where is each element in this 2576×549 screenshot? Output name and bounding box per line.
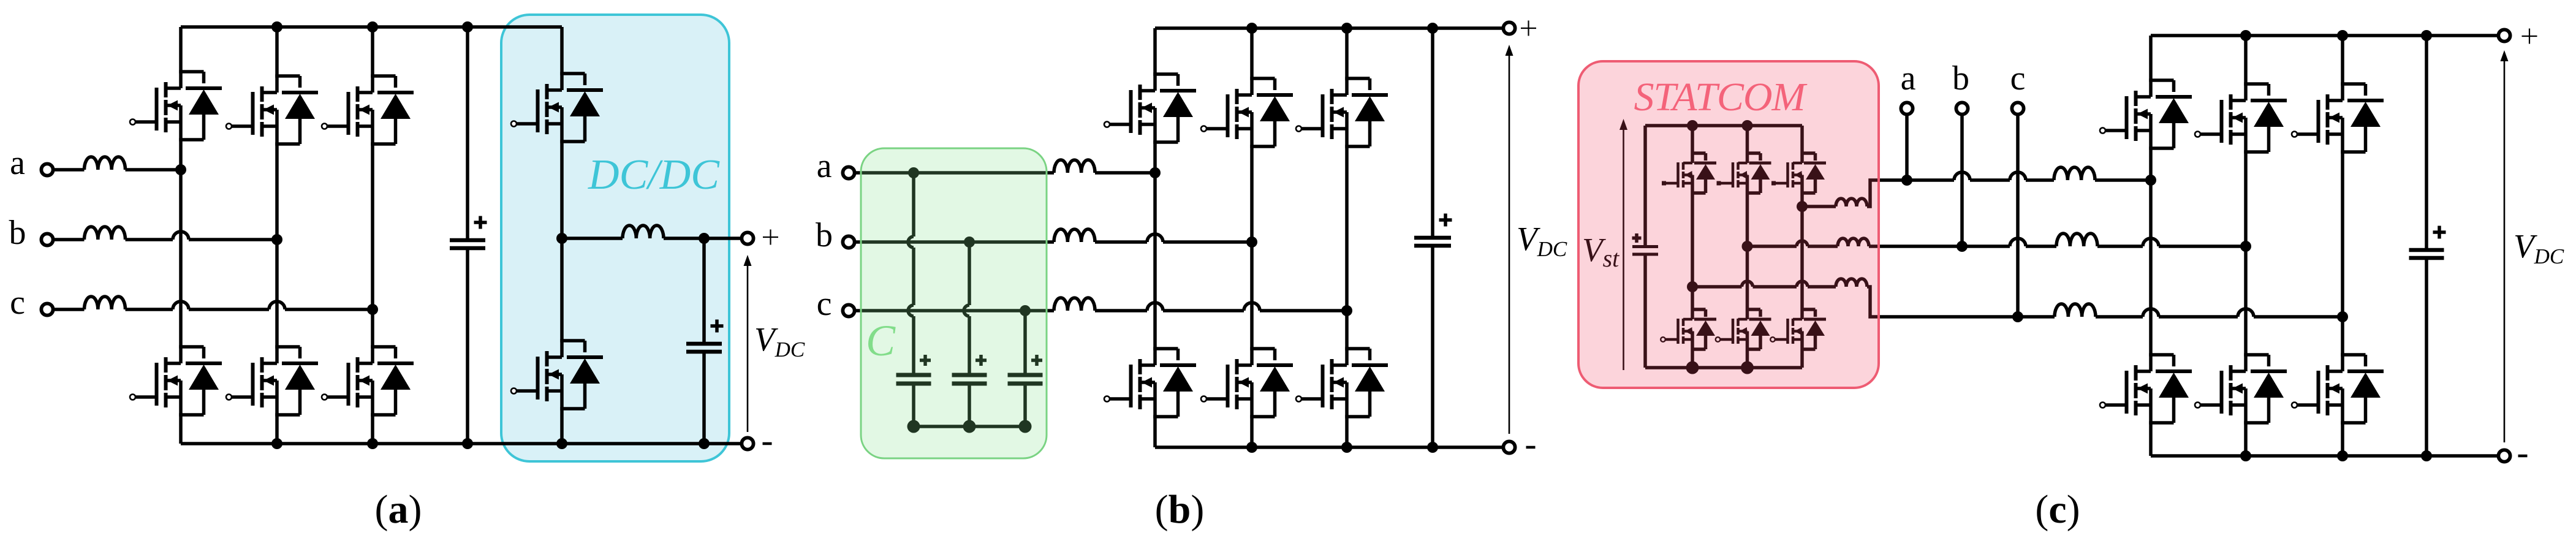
- gate terminal of Q2: [130, 395, 135, 400]
- inductor Lb: [1054, 229, 1095, 242]
- svg-text:b: b: [1952, 59, 1969, 97]
- wire statcom output 3 lead: [1692, 285, 1742, 289]
- node cap bank tap a: [908, 167, 919, 178]
- node statcom top rail leg 2: [1742, 120, 1753, 131]
- wire phase 2 run a: [1962, 244, 2010, 248]
- transistor Q3: [2200, 36, 2287, 246]
- wire cap bank common rail: [914, 425, 1025, 428]
- wire cap 1 riser lower: [912, 316, 915, 375]
- svg-text:DC/DC: DC/DC: [588, 151, 720, 199]
- wire phase c to hop 1: [126, 308, 173, 311]
- transistor Q5: [2297, 36, 2384, 317]
- wire phase 3 run b: [2096, 315, 2143, 319]
- wire cap 1 riser hop over phase c: [908, 305, 914, 316]
- wire negative DC rail: [2151, 454, 2499, 458]
- node terminal c: [41, 303, 53, 315]
- node top rail leg 3: [1341, 23, 1352, 34]
- svg-text:(a): (a): [375, 487, 422, 532]
- wire positive DC rail: [1155, 26, 1504, 30]
- polarity mark + of Cc: [1031, 355, 1042, 366]
- polarity mark + of Cb: [975, 355, 987, 366]
- node node a: [1901, 175, 1912, 186]
- node buck midpoint: [556, 233, 567, 244]
- transistor Q2: [1110, 173, 1196, 447]
- transistor Q1: [1110, 28, 1196, 173]
- node top rail leg 3: [2337, 30, 2348, 41]
- wire phase b to leg 2: [1163, 240, 1252, 244]
- node statcom phase 1 tap: [1797, 201, 1808, 212]
- inductor statcom L3: [1836, 279, 1867, 287]
- gate terminal of Q1: [1104, 122, 1110, 127]
- wire statcom output 2 hop over leg 3: [1797, 241, 1808, 246]
- node top rail capacitor: [2421, 30, 2432, 41]
- wire statcom output 2 to node b: [1869, 244, 1962, 248]
- node bottom rail output capacitor: [699, 438, 710, 449]
- node bottom rail leg 3: [2337, 450, 2348, 461]
- gate terminal of Q5: [322, 124, 327, 129]
- node cap bank common a: [907, 420, 920, 433]
- node output - terminal: [2498, 450, 2510, 461]
- wire statcom output 3 lead c: [1808, 285, 1836, 289]
- label - output: [763, 442, 772, 445]
- gate terminal of Q1: [2100, 128, 2105, 134]
- wire statcom bottom rail: [1645, 366, 1802, 369]
- wire cap 2 riser upper: [968, 242, 971, 305]
- wire phase b hop over leg 1: [1147, 234, 1163, 242]
- arrow VDC: [2501, 50, 2509, 442]
- transistor Q4: [1207, 242, 1293, 447]
- wire statcom output 3 to node c: [1867, 287, 2018, 317]
- label - output: [2518, 455, 2528, 458]
- node output + terminal: [2498, 29, 2510, 41]
- gate terminal of statcom Q5: [1771, 181, 1776, 186]
- gate terminal of Q6: [2292, 403, 2297, 408]
- transistor Q3: [232, 27, 318, 240]
- node output node: [699, 233, 710, 244]
- svg-text:b: b: [816, 216, 833, 254]
- gate terminal of Q5: [2292, 132, 2297, 137]
- node phase a node: [1150, 167, 1161, 178]
- node phase b node: [271, 234, 282, 245]
- node statcom phase 3 tap: [1687, 281, 1698, 292]
- wire phase c wire: [855, 309, 1055, 312]
- transistor statcom Q6: [1775, 206, 1826, 368]
- gate terminal of statcom Q2: [1661, 337, 1665, 342]
- node terminal b: [843, 236, 854, 248]
- capacitor Cb: [952, 374, 987, 426]
- wire phase b lead: [53, 238, 85, 241]
- wire phase 2 run c: [2097, 244, 2143, 248]
- gate terminal of Q5: [1296, 126, 1301, 132]
- wire phase c hop over leg 2: [269, 301, 285, 309]
- wire phase c between hops: [189, 308, 269, 311]
- wire negative DC rail: [1155, 445, 1504, 449]
- node output + terminal: [741, 232, 753, 244]
- capacitor Ca: [896, 374, 931, 426]
- wire phase 3 run c: [2159, 315, 2238, 319]
- transistor statcom Q2: [1665, 287, 1716, 368]
- wire phase 1 to leg 1: [2095, 178, 2151, 182]
- transistor Q7 buck high-side: [517, 27, 603, 238]
- polarity mark + of DC-link C: [1439, 214, 1452, 227]
- inductor Lc: [85, 297, 126, 309]
- gate terminal of Q4: [1201, 396, 1207, 402]
- svg-text:a: a: [10, 144, 25, 182]
- gate terminal of Q2: [2100, 403, 2105, 408]
- wire cap 3 riser: [1023, 311, 1027, 375]
- wire inductor to output node: [664, 237, 742, 240]
- capacitor DC-link C1: [450, 27, 485, 444]
- svg-text:(c): (c): [2035, 487, 2080, 532]
- wire phase b to hop: [126, 238, 173, 241]
- wire phase 2 to leg 2: [2159, 244, 2246, 248]
- gate terminal of statcom Q3: [1717, 181, 1721, 186]
- wire negative DC rail: [181, 442, 748, 445]
- wire positive DC rail: [181, 25, 562, 29]
- polarity mark + of statcom capacitor: [1632, 233, 1642, 243]
- transistor Q1: [135, 27, 222, 170]
- wire statcom top rail: [1645, 124, 1802, 127]
- wire phase c between hops: [1163, 309, 1244, 312]
- transistor statcom Q4: [1721, 246, 1771, 368]
- label + output: [763, 230, 778, 245]
- node cap bank common b: [963, 420, 976, 433]
- wire phase c to leg 3: [285, 308, 373, 311]
- wire phase 1 run b: [1970, 178, 2010, 182]
- wire statcom output 2 lead: [1748, 244, 1797, 248]
- svg-text:(b): (b): [1155, 487, 1205, 532]
- wire phase b to leg 2: [189, 238, 277, 241]
- wire phase 3 hop over leg 1: [2143, 309, 2159, 317]
- node terminal a: [41, 164, 53, 175]
- node bottom rail buck: [556, 438, 567, 449]
- highlight box STATCOM: [1578, 61, 1879, 388]
- gate terminal of Q4: [2195, 403, 2200, 408]
- wire phase a lead: [53, 168, 85, 172]
- transistor Q6: [327, 309, 414, 444]
- wire phase b to hop: [1095, 240, 1147, 244]
- transistor statcom Q5: [1775, 126, 1826, 206]
- node terminal c: [843, 305, 854, 316]
- wire terminal a vertical: [1905, 115, 1909, 181]
- wire phase 1 run c: [2026, 178, 2054, 182]
- wire phase a to leg 1: [1095, 171, 1155, 175]
- wire phase 2 hop over c: [2010, 238, 2026, 246]
- inductor L3: [2055, 304, 2096, 317]
- arrow VDC: [1506, 45, 1513, 434]
- wire phase 1 run a: [1907, 178, 1954, 182]
- inductor L2: [2056, 233, 2097, 246]
- transistor statcom Q1: [1665, 126, 1716, 287]
- gate terminal of Q3: [226, 124, 232, 129]
- wire cap 2 riser lower: [968, 316, 971, 375]
- svg-text:c: c: [10, 284, 25, 322]
- wire phase b wire: [855, 240, 1055, 244]
- gate terminal of Q8 buck low-side: [511, 388, 517, 394]
- node top rail leg 2: [1246, 23, 1257, 34]
- wire statcom output 3 hop over leg 2: [1742, 281, 1753, 287]
- node bottom rail capacitor: [1427, 442, 1438, 453]
- svg-text:a: a: [1901, 59, 1916, 97]
- polarity mark + of DC-link C: [2433, 226, 2446, 239]
- node terminal b: [41, 233, 53, 245]
- gate terminal of Q6: [1296, 396, 1301, 402]
- transistor Q5: [327, 27, 414, 309]
- node bottom rail capacitor: [462, 438, 473, 449]
- transistor Q4: [2200, 246, 2287, 456]
- gate terminal of statcom Q1: [1662, 181, 1666, 186]
- node bottom rail leg 2: [1246, 442, 1257, 453]
- node top rail leg 2: [271, 21, 282, 32]
- label - output: [1526, 446, 1536, 449]
- gate terminal of Q3: [2195, 132, 2200, 137]
- wire phase 3 to leg 3: [2254, 315, 2343, 319]
- wire phase 3 run a: [2018, 315, 2055, 319]
- arrow VDC: [744, 255, 752, 432]
- wire cap 2 riser hop over phase c: [964, 305, 969, 316]
- wire phase 3 hop over leg 2: [2238, 309, 2254, 317]
- transistor Q6: [2297, 317, 2384, 456]
- capacitor statcom capacitor: [1632, 126, 1658, 368]
- transistor Q5: [1301, 28, 1388, 311]
- node bottom rail capacitor: [2421, 450, 2432, 461]
- inductor statcom L1: [1836, 199, 1867, 206]
- svg-text:b: b: [9, 214, 26, 252]
- wire phase c lead: [53, 308, 85, 311]
- inductor Lb: [85, 227, 126, 240]
- gate terminal of Q1: [130, 119, 135, 125]
- node bottom rail leg 2: [271, 438, 282, 449]
- node phase 3 node: [2337, 311, 2348, 322]
- wire phase a to leg 1: [126, 168, 181, 172]
- wire phase 2 run b: [2026, 244, 2056, 248]
- wire statcom output 2 lead b: [1808, 244, 1838, 248]
- node bottom rail leg 3: [367, 438, 378, 449]
- inductor L buck: [623, 225, 664, 238]
- wire positive DC rail: [2151, 34, 2499, 37]
- node node b: [1957, 241, 1968, 252]
- gate terminal of Q2: [1104, 396, 1110, 402]
- wire statcom output 1 lead: [1802, 205, 1836, 208]
- node phase c node: [367, 304, 378, 315]
- label + output: [2522, 29, 2537, 44]
- inductor statcom L2: [1838, 238, 1869, 246]
- node cap bank tap b: [964, 237, 975, 248]
- wire buck midpoint to inductor: [562, 237, 623, 240]
- wire cap 1 riser hop over phase b: [908, 237, 914, 248]
- wire phase 2 hop over leg 1: [2143, 238, 2159, 246]
- node statcom bottom rail leg 2: [1741, 362, 1754, 374]
- node top rail leg 2: [2240, 30, 2251, 41]
- polarity mark + of Ca: [920, 355, 931, 366]
- wire cap 1 riser upper: [912, 173, 915, 237]
- transistor Q6: [1301, 311, 1388, 447]
- wire terminal c vertical: [2016, 115, 2020, 317]
- polarity mark + of output capacitor C2: [711, 320, 724, 333]
- node terminal a: [843, 167, 854, 178]
- inductor La: [1054, 160, 1095, 173]
- highlight box DC/DC converter: [501, 15, 729, 461]
- svg-text:C: C: [866, 316, 896, 365]
- wire phase 1 hop over b: [1954, 172, 1970, 180]
- transistor Q4: [232, 240, 318, 444]
- node statcom top rail leg 1: [1687, 120, 1698, 131]
- svg-text:STATCOM: STATCOM: [1634, 75, 1808, 119]
- capacitor DC-link C: [1414, 28, 1451, 447]
- capacitor Cc: [1008, 374, 1043, 426]
- node phase b node: [1246, 237, 1257, 248]
- node phase c node: [1341, 305, 1352, 316]
- wire statcom output 3 lead b: [1753, 285, 1797, 289]
- highlight box C capacitor bank: [861, 148, 1047, 458]
- node node c: [2012, 311, 2023, 322]
- gate terminal of statcom Q4: [1716, 337, 1721, 342]
- wire statcom output 3 hop over leg 3: [1797, 281, 1808, 287]
- polarity mark + of DC-link C1: [474, 216, 487, 229]
- node terminal c: [2012, 102, 2023, 114]
- gate terminal of statcom Q6: [1770, 337, 1775, 342]
- wire phase b hop over leg 1: [173, 232, 189, 240]
- node statcom phase 2 tap: [1742, 241, 1753, 252]
- node output + terminal: [1503, 22, 1515, 34]
- wire phase c to hop 1: [1095, 309, 1147, 312]
- capacitor output capacitor C2: [686, 238, 722, 444]
- node cap bank common c: [1019, 420, 1032, 433]
- inductor Lc: [1054, 298, 1095, 311]
- wire terminal b vertical: [1960, 115, 1964, 247]
- node phase 2 node: [2240, 241, 2251, 252]
- arrow Vst: [1619, 119, 1627, 370]
- wire phase c to leg 3: [1260, 309, 1347, 312]
- wire phase 1 hop over c: [2010, 172, 2026, 180]
- node bottom rail leg 3: [1341, 442, 1352, 453]
- wire cap 1 riser middle: [912, 248, 915, 305]
- node output - terminal: [1503, 441, 1515, 453]
- transistor Q8 buck low-side: [517, 238, 603, 444]
- wire phase a wire: [855, 171, 1055, 175]
- inductor La: [85, 157, 126, 170]
- gate terminal of Q7 buck high-side: [511, 121, 517, 127]
- svg-text:c: c: [2010, 59, 2026, 97]
- transistor Q2: [2105, 180, 2192, 456]
- gate terminal of Q4: [226, 395, 232, 400]
- node cap bank tap c: [1020, 305, 1031, 316]
- node statcom bottom rail leg 1: [1686, 362, 1699, 374]
- node phase 1 node: [2145, 175, 2156, 186]
- wire phase c hop over leg 1: [173, 301, 189, 309]
- svg-text:a: a: [817, 147, 832, 185]
- node terminal b: [1956, 102, 1968, 114]
- capacitor DC-link C: [2409, 36, 2444, 456]
- svg-text:c: c: [817, 285, 832, 323]
- inductor L1: [2054, 167, 2095, 180]
- transistor Q2: [135, 170, 222, 444]
- label + output: [1521, 21, 1536, 36]
- wire phase c hop over leg 2: [1244, 303, 1260, 311]
- node phase a node: [175, 164, 186, 175]
- node top rail capacitor: [1427, 23, 1438, 34]
- node output - terminal: [741, 437, 753, 449]
- gate terminal of Q6: [322, 395, 327, 400]
- node top rail capacitor: [462, 21, 473, 32]
- wire statcom output 1 to node a: [1867, 180, 1907, 206]
- transistor statcom Q3: [1721, 126, 1771, 246]
- transistor Q3: [1207, 28, 1293, 242]
- node top rail leg 3: [367, 21, 378, 32]
- node bottom rail leg 2: [2240, 450, 2251, 461]
- transistor Q1: [2105, 36, 2192, 180]
- wire phase c hop over leg 1: [1147, 303, 1163, 311]
- gate terminal of Q3: [1201, 126, 1207, 132]
- node terminal a: [1901, 102, 1912, 114]
